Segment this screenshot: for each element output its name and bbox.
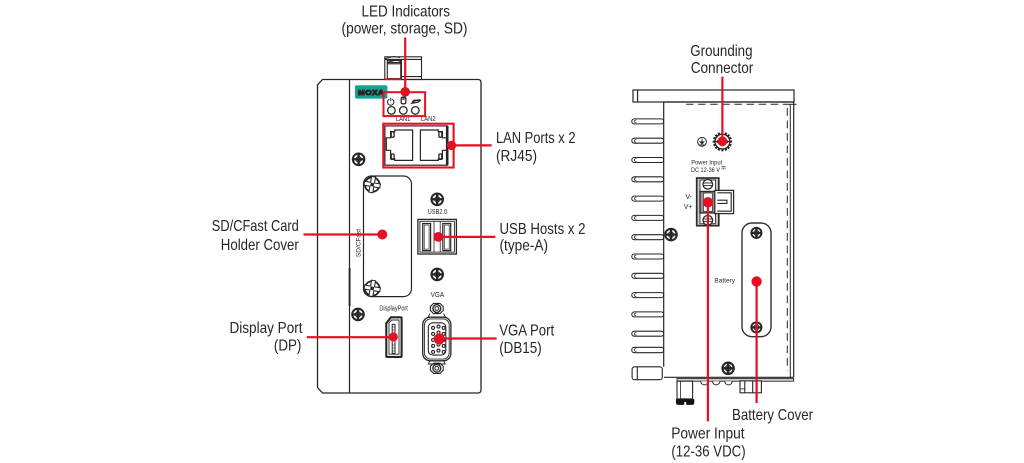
svg-text:(RJ45): (RJ45) [496,148,537,165]
svg-text:V-: V- [685,194,692,201]
svg-text:USB Hosts x 2: USB Hosts x 2 [500,221,586,238]
bottom connector right (battery line passes) [740,381,761,393]
svg-text:LAN Ports x 2: LAN Ports x 2 [496,130,576,147]
svg-text:Display Port: Display Port [230,320,303,337]
svg-text:LED Indicators: LED Indicators [362,3,451,20]
highlight box LAN [383,124,453,168]
dot LED [400,87,410,97]
dot battery [751,276,761,286]
heatsink bottom foot [632,367,662,380]
svg-text:Connector: Connector [691,60,754,77]
svg-text:(DP): (DP) [274,338,302,355]
top hex nut [430,303,443,313]
battery cover screw bottom [751,322,761,332]
dot grounding [718,136,728,146]
leader line LAN [452,144,492,146]
SD/CFast card holder cover [355,176,411,297]
hidden edge dashes top [686,103,786,105]
plug wire housing to the right [715,190,734,213]
svg-text:(12-36 VDC): (12-36 VDC) [671,444,745,461]
front view body outline [318,80,482,394]
RJ45 jack LAN1 (left, latch left) [386,130,412,160]
svg-text:SD/CFast Card: SD/CFast Card [212,218,299,235]
svg-text:(power, storage, SD): (power, storage, SD) [342,21,468,38]
big phillips screw SD cover bottom [363,279,382,298]
bottom plate [677,379,794,382]
LAN ports block [385,126,447,165]
dot LAN [447,141,456,150]
dot power input [703,197,713,207]
leader line grounding [721,77,723,142]
VGA port connector [423,303,451,373]
svg-text:Power Input: Power Input [691,159,722,166]
power input small labels [691,159,726,174]
LED circles x3 [388,107,420,115]
leader line LED indicators [404,38,406,93]
leader line SD cover [304,233,383,235]
heatsink fins x13 [632,119,664,353]
red segment under bracket [385,78,402,80]
dot DisplayPort [389,332,398,341]
body [428,314,446,318]
front view top mounting bracket [385,56,422,79]
15 pins [432,325,446,353]
svg-text:SD/CFast: SD/CFast [355,229,362,257]
V- V+ labels [684,194,693,211]
svg-text:USB2.0: USB2.0 [428,209,448,216]
screw side bottom center [722,363,733,374]
ground symbol [698,137,707,146]
side top din-rail bar [633,90,794,102]
RJ45 jack LAN2 (right, latch right) [420,130,446,160]
small screw left of DisplayPort [352,309,364,321]
LED icon SD card [410,99,422,104]
svg-text:(DB15): (DB15) [499,340,542,357]
leader line USB [438,236,495,238]
big phillips screw SD cover top [363,175,382,194]
screw side left [665,229,677,241]
svg-text:V+: V+ [684,204,693,211]
small screw above USB [431,194,443,206]
moxa logo [355,85,387,98]
side body outline [664,102,797,381]
grounding connector (toothed washer) [713,132,732,151]
battery cover screw top [751,228,761,238]
svg-text:Battery: Battery [714,278,735,285]
svg-text:Holder Cover: Holder Cover [221,237,300,254]
dot USB [433,232,443,242]
dot SD cover [377,230,387,240]
bottom antenna/DC connector left [676,381,694,405]
svg-text:Battery Cover: Battery Cover [732,407,814,424]
svg-text:Power Input: Power Input [671,425,745,442]
svg-text:VGA: VGA [431,292,445,299]
LED icon power [388,98,394,105]
leader line DisplayPort [307,336,394,338]
LED icon storage [401,97,406,104]
leader line VGA [439,337,497,339]
svg-text:DC 12-36 V: DC 12-36 V [691,167,720,174]
svg-text:Grounding: Grounding [690,43,752,60]
USB host ports x2 [418,219,457,254]
small screw below USB [431,269,443,281]
svg-text:VGA Port: VGA Port [499,323,554,340]
LAN1 LAN2 labels [396,116,436,123]
dot VGA [434,334,445,345]
hidden edge dashes right [786,108,788,371]
highlight box LED [384,92,426,116]
battery cover [742,223,771,337]
bottom hex nut [428,361,445,364]
leader line battery [755,282,757,404]
svg-text:MOXA: MOXA [358,90,385,97]
svg-text:DisplayPort: DisplayPort [379,306,408,313]
DisplayPort connector [386,317,401,357]
small screw front upper-left [353,154,365,166]
leader line power input [707,202,709,421]
bottom bumps x3 [701,381,733,385]
front face divider line [349,80,351,394]
power terminal block [697,178,734,226]
svg-text:(type-A): (type-A) [500,238,549,255]
